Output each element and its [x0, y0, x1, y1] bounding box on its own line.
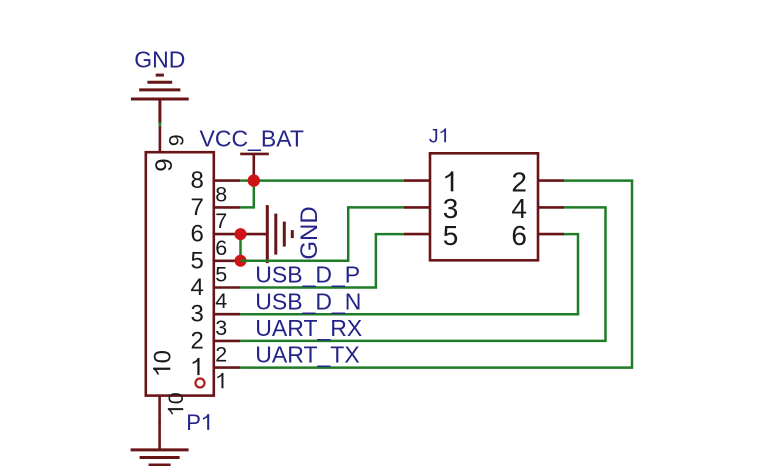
pin J1.6 — [538, 233, 564, 236]
pin P1.3 — [214, 313, 241, 316]
svg-text:7: 7 — [190, 194, 203, 221]
pin J1.3 — [404, 206, 430, 209]
svg-text:J: J — [429, 125, 439, 147]
pin number 10 (rotated) — [164, 392, 188, 414]
svg-text:4: 4 — [215, 289, 227, 313]
svg-text:UART_RX: UART_RX — [255, 315, 362, 341]
pin P1.7 — [214, 206, 241, 209]
junction C — [235, 255, 247, 267]
svg-text:VCC_BAT: VCC_BAT — [200, 126, 304, 152]
svg-text:2: 2 — [215, 343, 227, 367]
svg-text:UART_TX: UART_TX — [255, 342, 359, 368]
pin P1.10 — [158, 396, 161, 423]
svg-text:8: 8 — [215, 182, 227, 206]
svg-text:USB_D_P: USB_D_P — [255, 262, 360, 288]
pin P1.5 — [214, 259, 241, 262]
svg-text:3: 3 — [215, 316, 227, 340]
wire pin8 to junction — [240, 179, 254, 182]
svg-text:8: 8 — [190, 167, 203, 194]
pin P1.4 — [214, 286, 241, 289]
ground symbol GND (bottom) — [131, 450, 189, 465]
pin names 8..1 inside P1 — [190, 167, 203, 375]
pin J1.2 — [538, 179, 564, 182]
svg-text:0: 0 — [149, 350, 176, 363]
svg-text:P: P — [186, 410, 201, 435]
wire pin9 to GND — [159, 122, 162, 128]
svg-text:6: 6 — [190, 221, 203, 248]
svg-text:0: 0 — [164, 392, 188, 404]
connector P1 — [146, 152, 214, 395]
wire pin4 to J1.5 (USB_D_P) — [240, 234, 405, 287]
pin J1.1 — [404, 179, 430, 182]
pin J1.4 — [538, 206, 564, 209]
power symbol VCC_BAT — [240, 154, 269, 181]
pin numbers 8..1 outside P1 — [215, 182, 227, 388]
pin P1.9 — [159, 127, 162, 153]
wire pin6 to pin5 — [239, 234, 242, 261]
wire pin10 to GND — [158, 421, 161, 449]
wire jog down to pin7 — [240, 181, 254, 208]
svg-text:9: 9 — [151, 158, 178, 171]
pin P1.2 — [214, 340, 241, 343]
junction A — [248, 174, 260, 186]
svg-text:5: 5 — [190, 247, 203, 274]
pin P1.6 — [214, 233, 241, 236]
pin name 10 (rotated, inside) — [149, 350, 176, 374]
wire pin3 to J1.6 (USB_D_N) — [240, 234, 578, 314]
pin1 indicator circle — [196, 379, 205, 388]
svg-text:6: 6 — [511, 220, 527, 251]
svg-text:GND: GND — [296, 206, 323, 259]
pin J1.5 — [404, 233, 430, 236]
svg-text:USB_D_N: USB_D_N — [255, 288, 361, 314]
wire pin5 to J1.3 — [241, 207, 406, 260]
svg-text:7: 7 — [215, 209, 227, 233]
svg-text:GND: GND — [134, 47, 185, 73]
connector J1 — [430, 153, 538, 260]
pin P1.8 — [214, 179, 241, 182]
svg-text:2: 2 — [190, 327, 203, 354]
pin numbers J1 — [443, 166, 527, 250]
svg-text:5: 5 — [443, 220, 459, 251]
wire pin2 to J1.4 (UART_RX) — [240, 207, 605, 341]
ground symbol GND (middle, rotated) — [241, 205, 293, 263]
svg-text:5: 5 — [215, 263, 227, 287]
pin P1.1 — [214, 366, 241, 369]
svg-text:4: 4 — [190, 274, 203, 301]
svg-text:3: 3 — [190, 301, 203, 328]
wire pin1 to J1.2 (UART_TX) — [240, 181, 632, 368]
svg-text:6: 6 — [215, 236, 227, 260]
wire net VCC to J1.1 — [254, 179, 405, 182]
junction B — [235, 228, 247, 240]
ground symbol GND (top, flipped) — [131, 75, 189, 124]
svg-text:9: 9 — [165, 134, 189, 146]
